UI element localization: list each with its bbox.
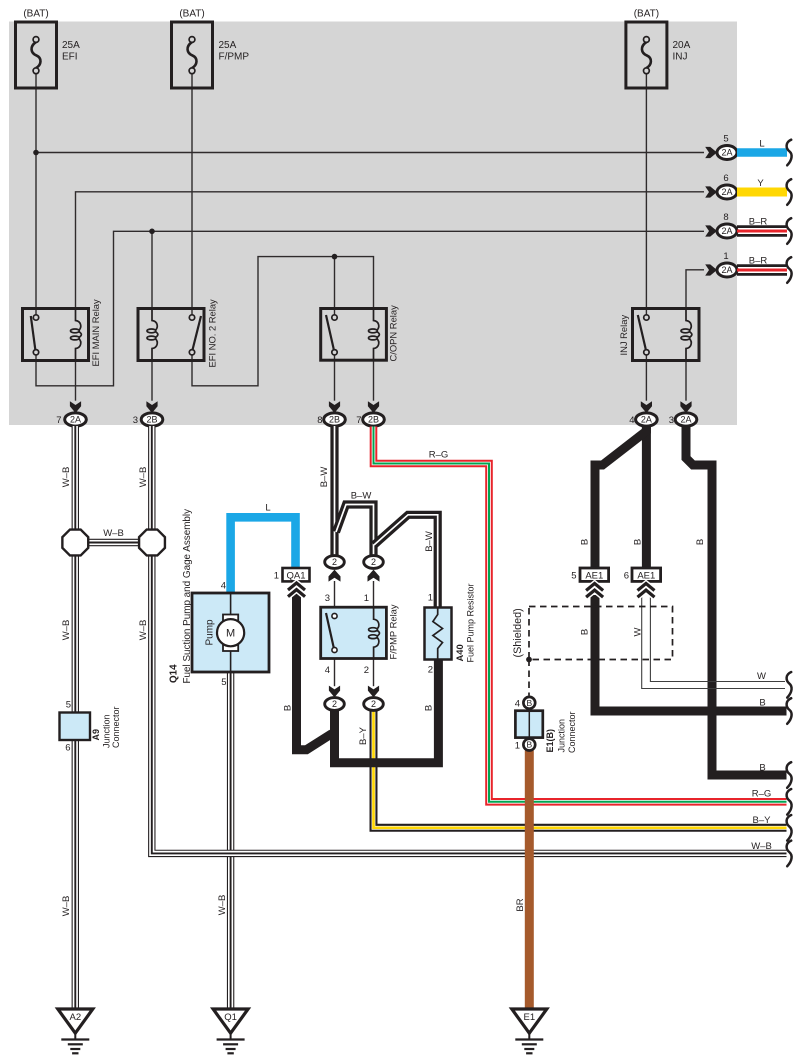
svg-text:2A: 2A [721,226,732,236]
svg-text:(Shielded): (Shielded) [512,608,524,657]
svg-text:Q1: Q1 [224,1012,237,1023]
svg-text:B: B [759,763,765,774]
svg-text:W–B: W–B [751,841,772,852]
svg-text:F/PMP Relay: F/PMP Relay [388,604,399,659]
svg-text:Q14: Q14 [169,664,180,683]
svg-text:2: 2 [332,557,337,567]
svg-text:2A: 2A [721,265,732,275]
svg-text:A2: A2 [69,1012,81,1023]
svg-text:5: 5 [571,571,576,582]
svg-text:B: B [580,629,591,635]
svg-text:W–B: W–B [61,467,72,488]
svg-text:W–B: W–B [103,528,124,539]
svg-text:20A: 20A [673,40,691,51]
svg-text:B–W: B–W [424,531,435,552]
svg-text:B: B [759,698,765,709]
svg-text:QA1: QA1 [286,571,305,582]
svg-text:3: 3 [133,415,138,426]
svg-text:8: 8 [317,415,322,426]
svg-text:1: 1 [428,593,433,604]
svg-text:2: 2 [332,699,337,709]
svg-text:7: 7 [56,415,61,426]
svg-text:Junction: Junction [557,719,567,753]
svg-text:BR: BR [515,898,526,911]
svg-text:6: 6 [65,743,70,754]
svg-text:Pump: Pump [205,619,216,646]
svg-text:1: 1 [364,593,369,604]
svg-text:Y: Y [757,178,764,189]
svg-text:2A: 2A [680,415,691,425]
svg-text:2A: 2A [721,187,732,197]
svg-text:W–B: W–B [61,620,72,641]
svg-text:2A: 2A [641,415,652,425]
svg-text:C/OPN Relay: C/OPN Relay [388,305,399,362]
svg-text:B: B [424,705,435,711]
svg-text:2A: 2A [70,415,81,425]
svg-text:B–Y: B–Y [753,815,772,826]
svg-text:25A: 25A [219,40,237,51]
svg-text:B: B [283,705,294,711]
svg-text:B: B [695,539,706,545]
svg-text:R–G: R–G [429,450,449,461]
svg-text:W: W [633,627,644,636]
svg-text:M: M [226,628,235,640]
svg-text:4: 4 [629,415,634,426]
svg-text:EFI NO. 2 Relay: EFI NO. 2 Relay [207,299,218,368]
svg-text:A9: A9 [91,729,101,741]
svg-text:EFI: EFI [62,52,78,63]
svg-text:3: 3 [669,415,674,426]
svg-text:B–W: B–W [351,490,372,501]
svg-text:5: 5 [66,700,71,711]
svg-text:E1: E1 [523,1012,535,1023]
svg-text:Connector: Connector [567,711,577,753]
svg-text:2: 2 [371,557,376,567]
svg-text:2B: 2B [368,415,379,425]
svg-text:5: 5 [723,134,728,145]
svg-text:Fuel Pump Resistor: Fuel Pump Resistor [466,583,476,662]
svg-text:8: 8 [723,212,728,223]
svg-text:(BAT): (BAT) [634,9,659,20]
svg-text:Connector: Connector [111,706,121,748]
svg-text:R–G: R–G [752,789,772,800]
svg-text:W–B: W–B [138,620,149,641]
svg-text:EFI MAIN Relay: EFI MAIN Relay [90,299,101,367]
svg-text:1: 1 [723,251,728,262]
svg-text:L: L [265,503,270,514]
svg-text:INJ: INJ [673,52,688,63]
svg-text:4: 4 [325,665,330,676]
svg-text:AE1: AE1 [637,571,655,582]
svg-text:2B: 2B [146,415,157,425]
svg-text:B–W: B–W [319,467,330,488]
svg-text:(BAT): (BAT) [23,9,48,20]
svg-text:(BAT): (BAT) [179,9,204,20]
svg-text:W: W [757,671,766,682]
svg-text:W–B: W–B [61,896,72,917]
svg-text:B–R: B–R [749,256,768,267]
svg-text:F/PMP: F/PMP [219,52,250,63]
svg-text:B: B [526,740,532,750]
svg-text:4: 4 [515,699,520,710]
svg-text:25A: 25A [62,40,80,51]
svg-text:A40: A40 [454,644,465,661]
svg-text:6: 6 [723,173,728,184]
svg-text:W–B: W–B [217,895,228,916]
svg-text:Junction: Junction [102,714,112,748]
svg-text:2: 2 [371,699,376,709]
svg-text:2: 2 [364,665,369,676]
svg-text:B–R: B–R [749,217,768,228]
svg-text:1: 1 [515,741,520,752]
svg-text:Fuel Suction Pump and Gage Ass: Fuel Suction Pump and Gage Assembly [182,509,193,684]
svg-text:2B: 2B [329,415,340,425]
svg-text:5: 5 [221,677,226,688]
svg-text:INJ Relay: INJ Relay [618,315,629,356]
svg-text:3: 3 [325,593,330,604]
svg-text:6: 6 [624,571,629,582]
svg-text:B: B [580,539,591,545]
svg-text:B–Y: B–Y [358,726,369,745]
svg-text:E1(B): E1(B) [545,729,555,753]
svg-text:B: B [526,698,532,708]
svg-text:AE1: AE1 [585,571,603,582]
svg-text:4: 4 [221,581,226,592]
svg-text:B: B [633,539,644,545]
svg-text:2: 2 [428,665,433,676]
svg-text:L: L [759,139,764,150]
svg-text:7: 7 [356,415,361,426]
svg-text:1: 1 [274,571,279,582]
svg-text:W–B: W–B [138,467,149,488]
svg-text:2A: 2A [721,148,732,158]
